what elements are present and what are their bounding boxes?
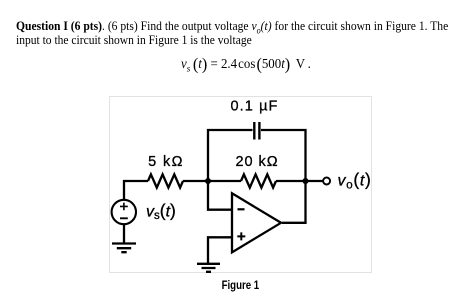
- svg-text:vs(t): vs(t): [146, 200, 176, 222]
- svg-text:vo(t): vo(t): [338, 170, 372, 192]
- svg-text:5 kΩ: 5 kΩ: [148, 154, 184, 170]
- svg-text:20 kΩ: 20 kΩ: [236, 154, 279, 170]
- svg-text:0.1 µF: 0.1 µF: [231, 99, 279, 115]
